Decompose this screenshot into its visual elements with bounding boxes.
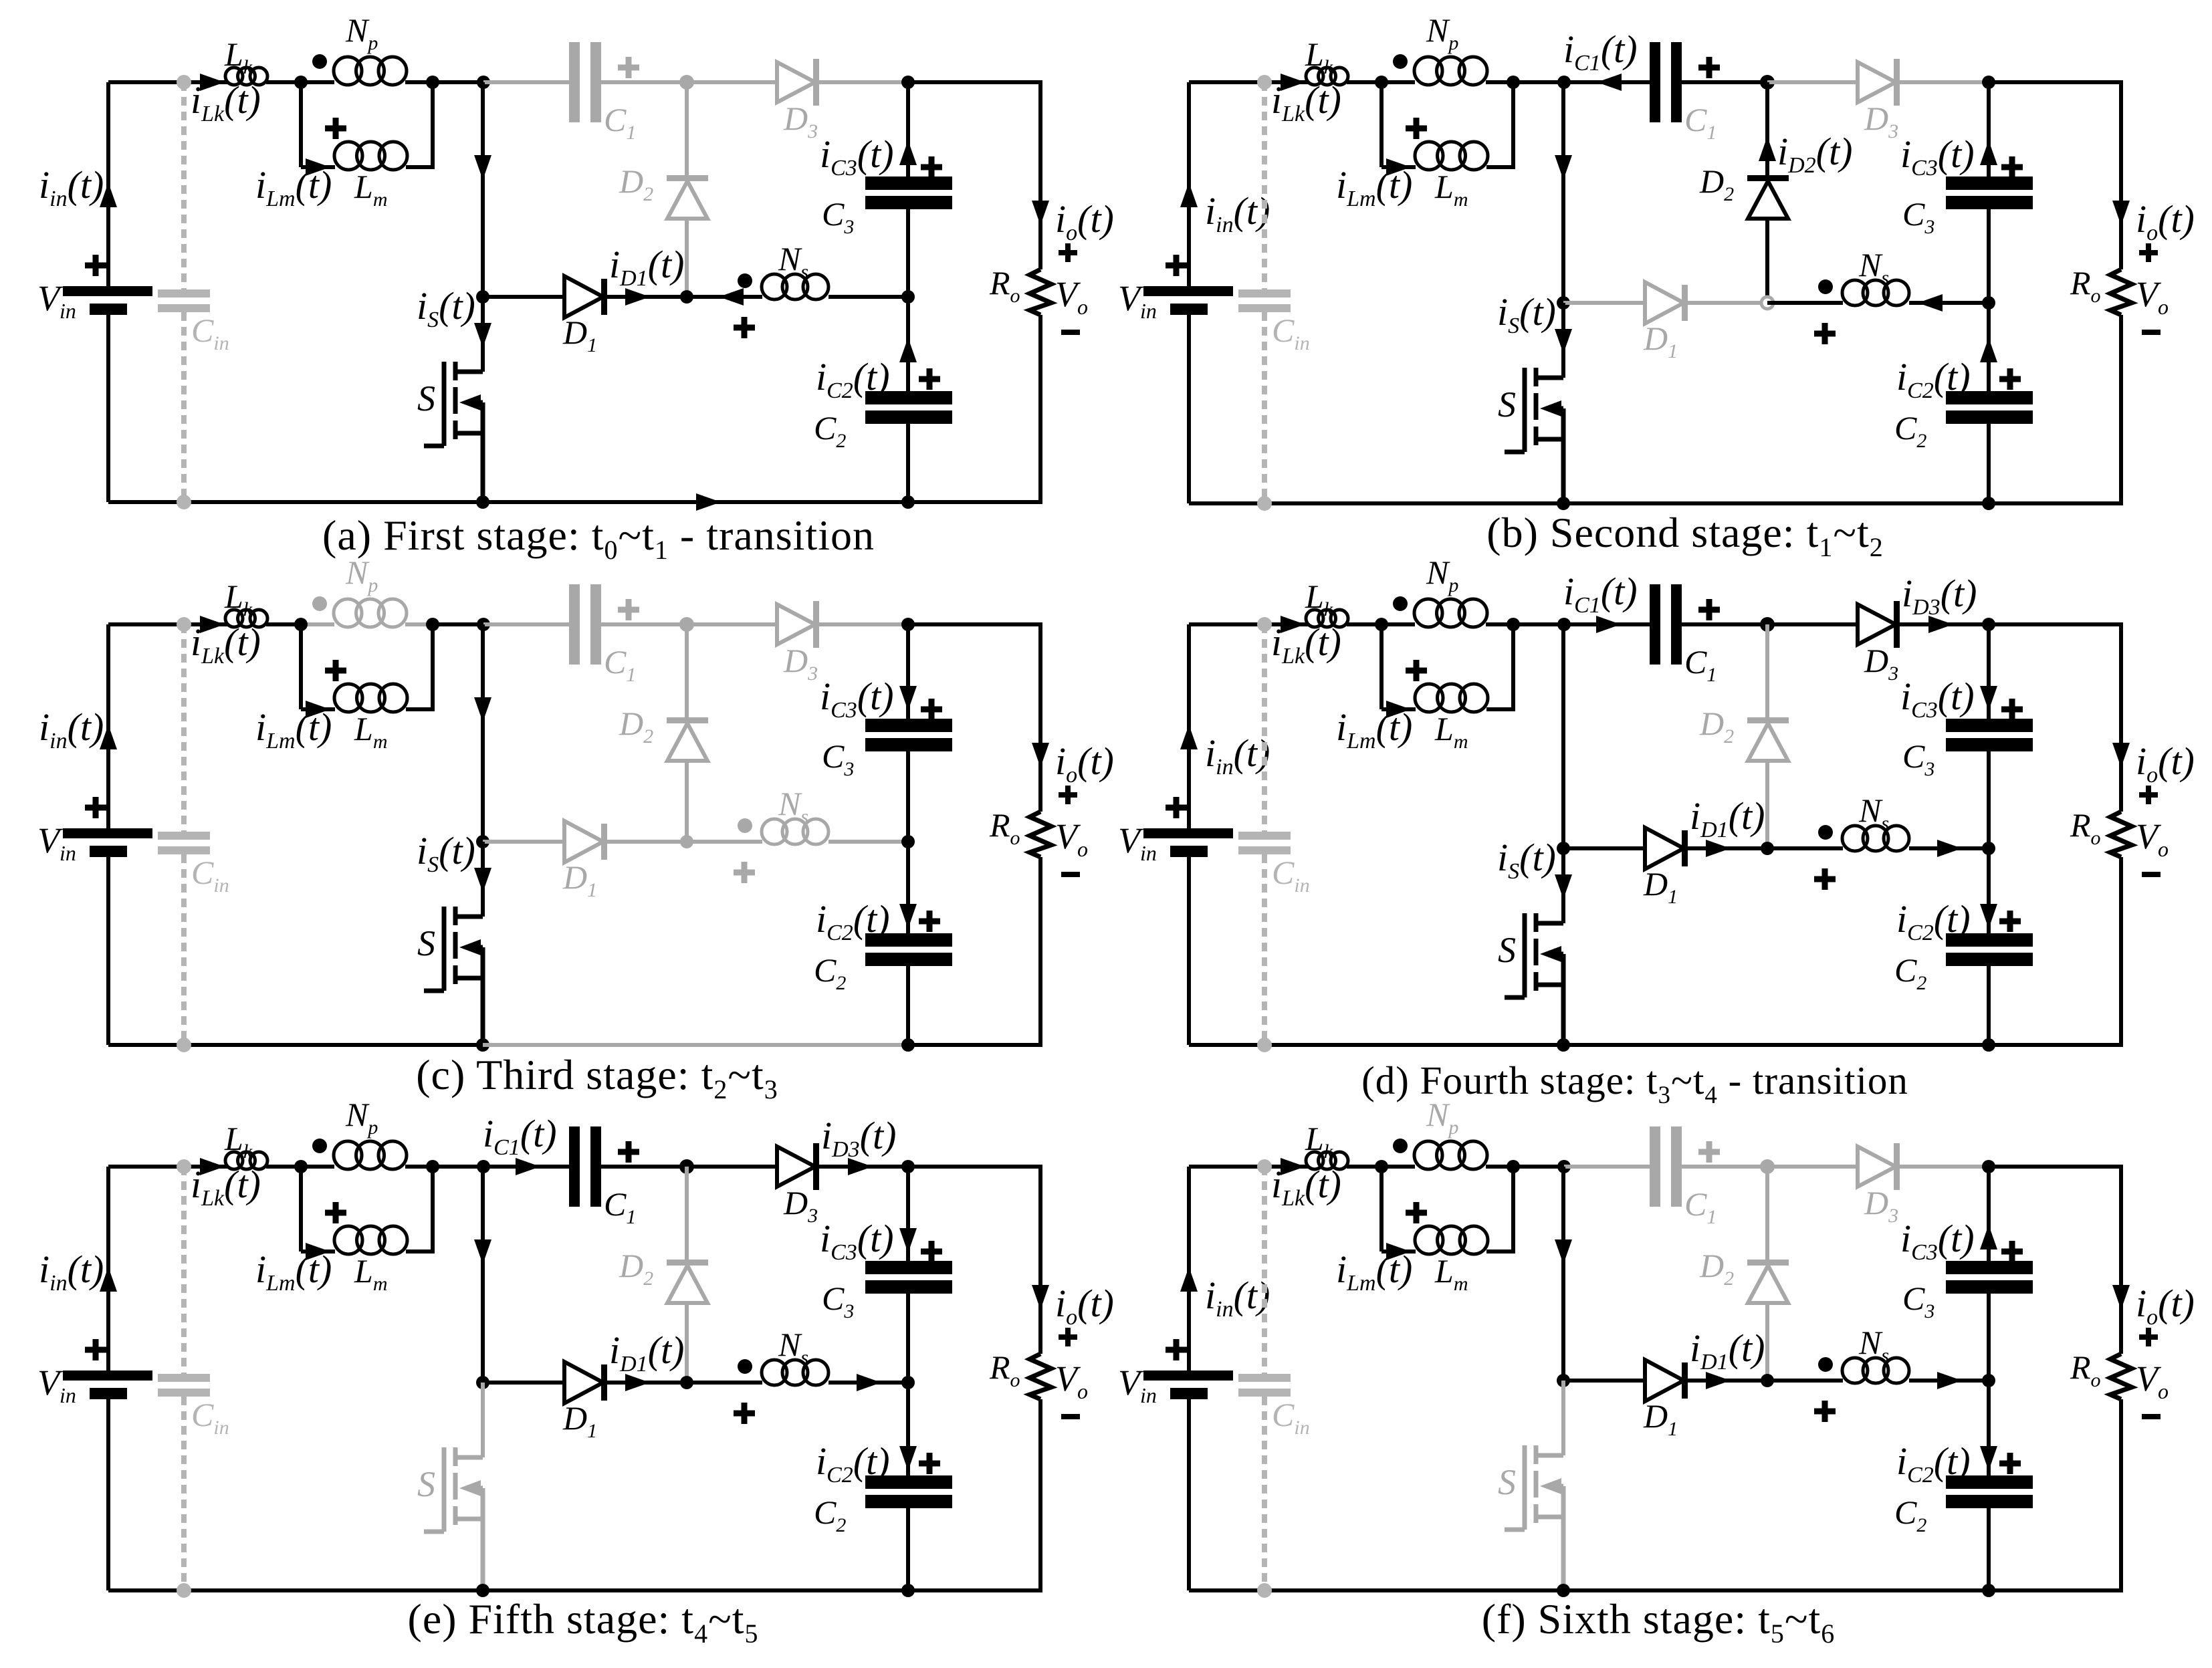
wire: node to D1 bbox=[483, 1381, 566, 1385]
current arrow i_Lk(t) bbox=[1281, 1158, 1305, 1175]
winding Ns bbox=[762, 819, 787, 844]
wire: Lm bottom-left lead bbox=[301, 707, 335, 711]
polarity + of C1 bbox=[1698, 599, 1720, 620]
wire: node A down (Lm branch) bbox=[1379, 82, 1384, 167]
wire: D2 lower lead bbox=[685, 219, 689, 297]
wire: bottom-right segment bbox=[908, 500, 1042, 504]
winding Np bbox=[1414, 57, 1442, 85]
capacitor Cin plates bbox=[1238, 1374, 1291, 1382]
current arrow i_C1(t) bbox=[1596, 616, 1621, 633]
polarity + of Ns secondary bbox=[734, 862, 755, 883]
svg-text:D1: D1 bbox=[1643, 320, 1678, 362]
wire: iS node down (drain) bbox=[481, 1383, 485, 1457]
polarity + of Lm bbox=[325, 118, 346, 139]
capacitor Cin plates bbox=[158, 1374, 210, 1382]
polarity + of Vo bbox=[1059, 786, 1077, 804]
wire: D2 node to Ns bbox=[1767, 1379, 1843, 1383]
wire: left side bbox=[1187, 1167, 1191, 1373]
wire: node X down to D1 node bbox=[1561, 1167, 1565, 1381]
current arrow i_Lk(t) bbox=[1281, 74, 1305, 91]
current arrow on bottom wire bbox=[696, 493, 721, 511]
wire: D2 lower lead bbox=[1765, 761, 1769, 848]
svg-text:C3: C3 bbox=[822, 1280, 854, 1322]
svg-text:Ro: Ro bbox=[989, 1348, 1020, 1391]
svg-text:iD1(t): iD1(t) bbox=[1690, 794, 1765, 842]
battery Vin negative plate bbox=[90, 846, 127, 857]
wire: top-right node down to C3 bbox=[1987, 1167, 1991, 1261]
polarity - of Vo bbox=[2142, 872, 2161, 877]
svg-text:Lm: Lm bbox=[354, 168, 387, 211]
wire: top-right segment bbox=[1989, 622, 2121, 626]
wire: Ns to output column bbox=[828, 295, 908, 299]
wire: left side bbox=[1187, 624, 1191, 831]
wire: D2 upper lead bbox=[685, 82, 689, 176]
capacitor C1 bbox=[569, 1126, 580, 1207]
node: D2 bottom junction bbox=[680, 1376, 693, 1389]
current arrow i_Lm(t) bbox=[306, 158, 330, 176]
svg-text:C1: C1 bbox=[604, 1185, 636, 1228]
current arrow i_in(t) bbox=[1180, 725, 1198, 749]
svg-text:Vin: Vin bbox=[1118, 278, 1157, 323]
svg-text:Lk: Lk bbox=[224, 1120, 253, 1163]
svg-text:iS(t): iS(t) bbox=[417, 284, 475, 332]
wire: C2 to bottom bbox=[1987, 1508, 1991, 1590]
wire: C1 to junction J bbox=[601, 622, 687, 626]
wire: Ns to output column bbox=[1909, 301, 1989, 305]
diode D3 bbox=[777, 62, 815, 102]
wire: Lm to node B riser bbox=[406, 707, 435, 711]
polarity + of Vo bbox=[1059, 243, 1077, 262]
body arrow of MOSFET S bbox=[459, 394, 481, 410]
svg-text:iC1(t): iC1(t) bbox=[1563, 27, 1638, 76]
node X bbox=[1557, 1160, 1571, 1173]
polarity - of Vo bbox=[1061, 1414, 1080, 1419]
wire: node A to Np bbox=[1381, 1165, 1415, 1169]
resistor Ro bbox=[1030, 812, 1051, 857]
capacitor Cin plates bbox=[158, 289, 210, 297]
wire: left side bbox=[106, 82, 110, 289]
wire: iS node down (drain) bbox=[1561, 303, 1565, 378]
wire: Np to node B bbox=[1486, 622, 1515, 626]
capacitor Cin plates bbox=[158, 832, 210, 840]
current arrow i_S(t) bbox=[474, 323, 491, 348]
current arrow i_D1(t) bbox=[625, 1374, 650, 1391]
current arrow i_o(t) bbox=[2112, 1285, 2130, 1310]
wire: C3 to middle node bbox=[906, 209, 910, 297]
wire: bottom middle segment bbox=[1563, 1588, 1989, 1592]
svg-text:Ro: Ro bbox=[989, 806, 1020, 849]
svg-text:C3: C3 bbox=[822, 195, 854, 238]
current arrow i_S(t) bbox=[1555, 329, 1572, 354]
current arrow i_in(t) bbox=[100, 1267, 117, 1292]
svg-text:iD3(t): iD3(t) bbox=[1902, 572, 1977, 620]
body arrow of MOSFET S bbox=[1540, 946, 1561, 962]
svg-text:Lm: Lm bbox=[1434, 1252, 1468, 1295]
polarity + of Vin bbox=[85, 255, 106, 276]
wire: Np to node B bbox=[405, 80, 435, 84]
current arrow i_Lk(t) bbox=[200, 616, 225, 633]
wire: node B to node X bbox=[1513, 80, 1564, 84]
svg-text:Lm: Lm bbox=[1434, 168, 1468, 211]
wire: Np to node B bbox=[405, 1165, 435, 1169]
wire: bottom-left segment bbox=[108, 1043, 483, 1047]
svg-text:iLm(t): iLm(t) bbox=[255, 705, 332, 753]
svg-text:iLk(t): iLk(t) bbox=[1271, 620, 1341, 669]
inductor Lk bbox=[1306, 610, 1323, 627]
battery Vin negative plate bbox=[90, 1388, 127, 1399]
wire: C1 to junction J bbox=[1682, 80, 1767, 84]
node B bbox=[1507, 1160, 1520, 1173]
capacitor Cin dashed lead (top) bbox=[181, 82, 187, 289]
svg-text:iLk(t): iLk(t) bbox=[191, 1163, 261, 1211]
wire: Lm bottom-left lead bbox=[1381, 165, 1416, 169]
wire: D3 to top-right node bbox=[819, 622, 908, 626]
current arrow i_D1(t) bbox=[1706, 1372, 1731, 1389]
wire: Lk to node A bbox=[266, 622, 308, 626]
wire: D1 to D2 node bbox=[1688, 301, 1767, 305]
polarity + of Vin bbox=[1166, 1339, 1187, 1360]
node J (D2 top junction) bbox=[679, 75, 694, 90]
svg-text:iS(t): iS(t) bbox=[417, 829, 475, 877]
polarity + of Vo bbox=[2139, 243, 2158, 262]
current arrow i_C3(t) bbox=[899, 686, 917, 711]
svg-text:Vo: Vo bbox=[2136, 274, 2169, 319]
wire: Lm bottom-left lead bbox=[301, 165, 335, 169]
diode D2 bbox=[1747, 1260, 1789, 1266]
wire: C2 to bottom bbox=[906, 424, 910, 502]
wire: bottom-right segment bbox=[908, 1043, 1042, 1047]
diode D1 bbox=[564, 1362, 603, 1403]
svg-text:Ns: Ns bbox=[778, 785, 808, 828]
wire: node B to node X bbox=[433, 622, 483, 626]
wire: node to D1 bbox=[1563, 846, 1646, 850]
current arrow i_D3(t) bbox=[848, 1158, 873, 1175]
current arrow i_Lm(t) bbox=[306, 1243, 330, 1260]
wire: left side bbox=[106, 624, 110, 831]
node: Cin bottom junction bbox=[1257, 496, 1272, 511]
wire: top-left segment bbox=[1189, 80, 1308, 84]
node: D1 line left junction bbox=[476, 290, 489, 304]
current arrow toward output column bbox=[857, 1374, 881, 1391]
capacitor Cin plates bbox=[1238, 289, 1291, 297]
current arrow on X drop bbox=[474, 697, 491, 722]
wire: C3 to middle node bbox=[1987, 1294, 1991, 1381]
svg-text:Vo: Vo bbox=[1055, 1358, 1088, 1403]
node: output column middle junction bbox=[1982, 296, 1995, 310]
diode D1 bbox=[1645, 1360, 1684, 1401]
wire: node A to Np bbox=[301, 80, 334, 84]
wire: node X to C1 bbox=[1564, 80, 1650, 84]
wire: C3 to middle node bbox=[906, 751, 910, 842]
polarity + of Ns secondary bbox=[1814, 868, 1836, 890]
wire: D1 to D2 node bbox=[607, 295, 687, 299]
wire: node B to node X bbox=[433, 1165, 483, 1169]
svg-text:iD3(t): iD3(t) bbox=[821, 1114, 896, 1162]
wire: top-left segment bbox=[1189, 622, 1308, 626]
current arrow i_in(t) bbox=[1180, 1267, 1198, 1292]
wire: iS node down (drain) bbox=[481, 297, 485, 372]
svg-text:iLk(t): iLk(t) bbox=[191, 620, 261, 669]
wire: Ns to output column bbox=[1909, 1379, 1989, 1383]
svg-text:iLm(t): iLm(t) bbox=[1336, 705, 1412, 753]
wire: top-right node down to C3 bbox=[906, 624, 910, 719]
current arrow i_C2(t) bbox=[899, 904, 917, 929]
current arrow i_Lm(t) bbox=[1386, 158, 1411, 176]
svg-text:iin(t): iin(t) bbox=[39, 705, 104, 753]
current arrow i_Lk(t) bbox=[200, 1158, 225, 1175]
inductor Lk bbox=[225, 610, 243, 627]
battery Vin positive plate bbox=[1143, 1371, 1233, 1381]
capacitor Cin dashed lead (top) bbox=[1262, 82, 1267, 289]
wire: node B to node X bbox=[1513, 1165, 1564, 1169]
phase dot of Np bbox=[312, 596, 327, 611]
node: D1 line left junction bbox=[1557, 842, 1570, 855]
svg-text:iLm(t): iLm(t) bbox=[1336, 163, 1412, 211]
winding Lm bbox=[1415, 142, 1443, 170]
polarity + of Vo bbox=[1059, 1328, 1077, 1346]
current arrow i_in(t) bbox=[100, 725, 117, 749]
svg-text:Vo: Vo bbox=[1055, 816, 1088, 861]
node: top-right junction bbox=[901, 618, 915, 631]
capacitor C1 bbox=[1650, 584, 1660, 665]
svg-text:(c) Third stage: t2~t3: (c) Third stage: t2~t3 bbox=[416, 1051, 778, 1104]
svg-text:S: S bbox=[1498, 384, 1516, 425]
svg-text:Ns: Ns bbox=[1858, 792, 1889, 834]
svg-text:Lk: Lk bbox=[1305, 1120, 1333, 1163]
capacitor Cin dashed lead (top) bbox=[1262, 1167, 1267, 1374]
wire: node X down to D1 node bbox=[1561, 82, 1565, 303]
current arrow i_C3(t) bbox=[1980, 140, 1997, 165]
node A bbox=[294, 1160, 308, 1173]
svg-text:iC3(t): iC3(t) bbox=[1900, 132, 1975, 181]
wire: top-right segment bbox=[1989, 1165, 2121, 1169]
node: D2 bottom junction bbox=[680, 290, 693, 304]
wire: Lm to node B riser bbox=[1486, 1249, 1515, 1254]
wire: right side bbox=[1040, 1165, 1042, 1169]
svg-text:C3: C3 bbox=[822, 737, 854, 780]
winding Lm bbox=[334, 684, 362, 712]
polarity + of Vin bbox=[85, 797, 106, 818]
svg-text:Lm: Lm bbox=[354, 710, 387, 753]
current arrow on X drop bbox=[474, 1239, 491, 1264]
svg-text:Cin: Cin bbox=[191, 854, 229, 897]
node: output column bottom junction bbox=[1982, 1584, 1995, 1597]
wire: bottom middle segment bbox=[1563, 1043, 1989, 1047]
node: switch bottom junction bbox=[1557, 1584, 1570, 1597]
current arrow i_S(t) bbox=[1555, 874, 1572, 899]
current arrow i_o(t) bbox=[1032, 1285, 1049, 1310]
body arrow of MOSFET S bbox=[459, 939, 481, 955]
svg-text:iLm(t): iLm(t) bbox=[255, 163, 332, 211]
node X bbox=[1557, 618, 1571, 631]
wire: D3 to top-right node bbox=[819, 1165, 908, 1169]
node A bbox=[294, 76, 308, 89]
svg-text:Ro: Ro bbox=[2070, 264, 2101, 307]
node: D2 bottom junction bbox=[680, 835, 693, 848]
svg-text:C3: C3 bbox=[1902, 737, 1934, 780]
svg-text:Np: Np bbox=[345, 11, 378, 54]
svg-text:iD1(t): iD1(t) bbox=[609, 243, 684, 291]
wire: node X down to D1 node bbox=[481, 82, 485, 297]
wire: Lk to node A bbox=[266, 80, 308, 84]
node: D1 line left junction bbox=[476, 1376, 489, 1389]
polarity + of Ns secondary bbox=[1814, 323, 1836, 344]
svg-text:C1: C1 bbox=[604, 101, 636, 144]
wire: D2 upper lead bbox=[1765, 1167, 1769, 1261]
diode D2 bbox=[667, 717, 708, 723]
svg-text:D1: D1 bbox=[562, 314, 597, 356]
battery Vin negative plate bbox=[1170, 1388, 1208, 1399]
winding Ns bbox=[762, 1360, 787, 1385]
svg-text:Vin: Vin bbox=[37, 1362, 76, 1407]
node: output column middle junction bbox=[901, 290, 915, 304]
capacitor C3 bbox=[865, 176, 952, 190]
current arrow i_Lm(t) bbox=[1386, 1243, 1411, 1260]
capacitor C1 bbox=[569, 584, 580, 665]
capacitor Cin dashed lead (top) bbox=[181, 1167, 187, 1374]
svg-text:iS(t): iS(t) bbox=[1497, 836, 1556, 884]
svg-text:iin(t): iin(t) bbox=[1205, 1274, 1270, 1322]
current arrow i_S(t) bbox=[474, 868, 491, 892]
node: D1 line left junction bbox=[476, 835, 489, 848]
diode D1 bbox=[1645, 282, 1684, 324]
svg-text:iC3(t): iC3(t) bbox=[820, 1217, 894, 1265]
capacitor Cin dashed lead (top) bbox=[1262, 624, 1267, 832]
svg-text:C2: C2 bbox=[1894, 409, 1926, 452]
node: switch bottom junction bbox=[1557, 497, 1570, 510]
wire: bottom-left segment bbox=[1189, 1588, 1563, 1592]
svg-text:iC1(t): iC1(t) bbox=[483, 1112, 557, 1160]
wire: bottom middle segment bbox=[483, 500, 908, 504]
svg-text:D3: D3 bbox=[1864, 100, 1898, 142]
wire: C1 to junction J bbox=[1682, 622, 1767, 626]
svg-text:iC3(t): iC3(t) bbox=[820, 675, 894, 723]
wire: Lm to node B riser bbox=[406, 1249, 435, 1254]
wire: C3 to middle node bbox=[1987, 209, 1991, 303]
node A bbox=[1375, 76, 1388, 89]
node B bbox=[426, 1160, 439, 1173]
phase dot of Ns bbox=[738, 273, 752, 288]
polarity + of Vo bbox=[2139, 786, 2158, 804]
node: output column middle junction bbox=[1982, 1374, 1995, 1387]
polarity + of Ns secondary bbox=[1814, 1401, 1836, 1422]
polarity + of C2 bbox=[1999, 1453, 2021, 1474]
wire: Np to node B bbox=[405, 622, 435, 626]
svg-text:Ns: Ns bbox=[778, 1326, 808, 1368]
svg-text:S: S bbox=[1498, 1462, 1516, 1502]
polarity + of C2 bbox=[919, 1453, 940, 1474]
phase dot of Np bbox=[1393, 54, 1408, 69]
winding Lm bbox=[1415, 1226, 1443, 1254]
wire: bottom-left segment bbox=[1189, 501, 1563, 505]
wire: D1 to D2 node bbox=[1688, 1379, 1767, 1383]
inductor Lk bbox=[225, 68, 243, 85]
capacitor C3 bbox=[865, 1261, 952, 1274]
wire: D3 to top-right node bbox=[1900, 622, 1989, 626]
svg-text:Ro: Ro bbox=[2070, 806, 2101, 849]
svg-text:S: S bbox=[1498, 930, 1516, 970]
node J (D2 top junction) bbox=[1760, 75, 1775, 90]
svg-text:C2: C2 bbox=[814, 951, 846, 994]
svg-text:Lk: Lk bbox=[1305, 578, 1333, 620]
wire: C1 to junction J bbox=[601, 1165, 687, 1169]
svg-text:iin(t): iin(t) bbox=[39, 163, 104, 211]
wire: C2 to bottom bbox=[1987, 424, 1991, 503]
wire: bottom middle segment bbox=[483, 1043, 908, 1047]
transistor S (MOSFET) bbox=[1505, 913, 1563, 1045]
current arrow i_o(t) bbox=[2112, 743, 2130, 767]
wire: D2 upper lead bbox=[1765, 82, 1769, 176]
wire: Lk to node A bbox=[266, 1165, 308, 1169]
polarity + of Lm bbox=[325, 1202, 346, 1223]
node A bbox=[1375, 618, 1388, 631]
svg-text:(a) First stage: t0~t1 - trans: (a) First stage: t0~t1 - transition bbox=[322, 511, 875, 565]
node: top-right junction bbox=[901, 76, 915, 89]
node J (D2 top junction) bbox=[679, 617, 694, 632]
svg-text:iD1(t): iD1(t) bbox=[609, 1328, 684, 1377]
resistor Ro bbox=[2110, 1354, 2132, 1399]
wire: top-left segment bbox=[1189, 1165, 1308, 1169]
wire: right side bbox=[1040, 80, 1042, 84]
winding Np bbox=[1414, 1141, 1442, 1169]
wire: middle node to C2 bbox=[906, 842, 910, 933]
wire: right side bbox=[2121, 80, 2123, 84]
wire: D2 lower lead bbox=[1765, 219, 1769, 303]
wire: node A to Np bbox=[1381, 622, 1415, 626]
current arrow i_o(t) bbox=[1032, 743, 1049, 767]
wire: Lm to node B riser bbox=[1486, 165, 1515, 169]
current arrow toward output column bbox=[1937, 1372, 1962, 1389]
wire: Ns to output column bbox=[828, 840, 908, 844]
node B bbox=[1507, 618, 1520, 631]
current arrow i_Lk(t) bbox=[200, 74, 225, 91]
current arrow i_o(t) bbox=[2112, 201, 2130, 225]
wire: D2 lower lead bbox=[685, 761, 689, 842]
node J (D2 top junction) bbox=[1760, 1159, 1775, 1174]
svg-text:Lk: Lk bbox=[224, 35, 253, 78]
svg-text:Lk: Lk bbox=[1305, 35, 1333, 78]
body arrow of MOSFET S bbox=[1540, 1478, 1561, 1494]
node: output column bottom junction bbox=[1982, 1038, 1995, 1052]
node B bbox=[1507, 76, 1520, 89]
node: switch bottom junction bbox=[476, 1584, 489, 1597]
polarity + of Lm bbox=[1406, 118, 1427, 139]
wire: bottom-right segment bbox=[1989, 501, 2123, 505]
current arrow i_C3(t) bbox=[899, 1228, 917, 1253]
node: Cin top junction bbox=[177, 617, 191, 632]
wire: D1 to D2 node bbox=[607, 1381, 687, 1385]
capacitor C2 bbox=[865, 1475, 952, 1489]
wire: bottom-left segment bbox=[1189, 1043, 1563, 1047]
svg-text:io(t): io(t) bbox=[2136, 1282, 2195, 1330]
wire: C2 to bottom bbox=[906, 1508, 910, 1590]
wire: node X to C1 bbox=[1564, 1165, 1650, 1169]
current arrow i_Lk(t) bbox=[1281, 616, 1305, 633]
wire: iS node down (drain) bbox=[1561, 848, 1565, 923]
polarity + of C1 bbox=[1698, 57, 1720, 78]
svg-text:Lm: Lm bbox=[354, 1252, 387, 1295]
winding Lm bbox=[334, 142, 362, 170]
wire: top-left segment bbox=[108, 80, 227, 84]
phase dot of Ns bbox=[1818, 825, 1833, 840]
battery Vin negative plate bbox=[1170, 304, 1208, 315]
phase dot of Ns bbox=[1818, 1357, 1833, 1372]
phase dot of Ns bbox=[1818, 279, 1833, 294]
diode D3 bbox=[1858, 62, 1896, 102]
wire: D3 to top-right node bbox=[1900, 1165, 1989, 1169]
svg-text:Cin: Cin bbox=[191, 1396, 229, 1439]
wire: D2 upper lead bbox=[685, 624, 689, 719]
